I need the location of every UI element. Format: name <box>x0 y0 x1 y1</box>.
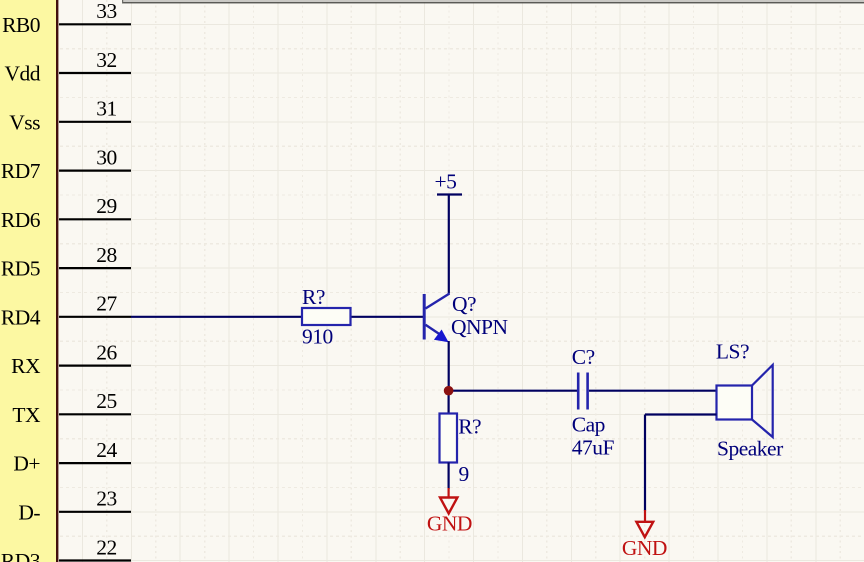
wire junction to C1 <box>449 390 577 392</box>
pin 32 Vdd <box>4 48 131 86</box>
svg-text:22: 22 <box>96 535 117 559</box>
pin 31 Vss <box>9 97 131 135</box>
svg-text:QNPN: QNPN <box>451 315 509 339</box>
svg-text:RD7: RD7 <box>1 159 41 183</box>
pin 22 RD3 <box>1 535 131 562</box>
svg-text:25: 25 <box>96 389 117 413</box>
wire junction to R2 <box>448 391 450 414</box>
label LS? (speaker designator) <box>716 340 749 364</box>
transistor Q? QNPN <box>424 294 449 343</box>
svg-text:Speaker: Speaker <box>717 437 783 461</box>
pin 24 D+ <box>13 438 131 476</box>
svg-text:910: 910 <box>302 325 333 349</box>
svg-text:RB0: RB0 <box>2 13 40 37</box>
ground GND1 <box>427 488 472 535</box>
svg-text:Q?: Q? <box>452 292 476 316</box>
pin 33 RB0 <box>2 0 131 37</box>
pin 29 RD6 <box>1 194 131 232</box>
svg-text:32: 32 <box>96 48 117 72</box>
svg-text:GND: GND <box>622 536 667 560</box>
svg-text:+5: +5 <box>435 170 457 194</box>
label 910 (R1 value) <box>302 325 333 349</box>
pin 27 RD4 <box>1 292 131 330</box>
svg-text:RX: RX <box>11 354 41 378</box>
toolbar bottom edge strip <box>122 0 864 3</box>
resistor R? 910 (horizontal) <box>302 308 351 325</box>
label Cap (C1 type) <box>572 412 605 436</box>
label R? (R1 designator) <box>302 285 325 309</box>
wire +5 to collector <box>448 195 450 294</box>
pin 30 RD7 <box>1 145 131 183</box>
svg-text:RD6: RD6 <box>1 208 41 232</box>
svg-text:LS?: LS? <box>716 340 749 364</box>
wire emitter to junction <box>448 341 450 391</box>
IC body U? (left, partial) <box>0 0 58 562</box>
svg-text:TX: TX <box>12 403 41 427</box>
wire R1 to Q1 base <box>350 316 423 318</box>
label Q? (Q1 designator) <box>452 292 476 316</box>
label R? (R2 designator) <box>458 415 481 439</box>
svg-text:Vdd: Vdd <box>4 62 40 86</box>
resistor R? 9 (vertical) <box>440 414 458 463</box>
svg-text:29: 29 <box>96 194 117 218</box>
pin 23 D- <box>18 487 131 525</box>
wire R2 to GND1 <box>448 463 450 490</box>
wire speaker pin2 down to GND2 <box>645 415 717 512</box>
svg-text:33: 33 <box>96 0 117 23</box>
capacitor C? 47uF <box>578 373 587 410</box>
svg-text:RD3: RD3 <box>1 549 40 562</box>
svg-text:RD4: RD4 <box>1 305 41 329</box>
svg-text:23: 23 <box>96 487 117 511</box>
label C? (C1 designator) <box>572 345 595 369</box>
svg-text:RD5: RD5 <box>1 257 40 281</box>
ground GND2 <box>622 510 667 560</box>
junction node <box>444 386 454 396</box>
svg-text:47uF: 47uF <box>572 435 615 459</box>
speaker LS? <box>717 365 773 437</box>
svg-text:GND: GND <box>427 511 472 535</box>
label 47uF (C1 value) <box>572 435 615 459</box>
svg-text:C?: C? <box>572 345 595 369</box>
svg-text:9: 9 <box>459 462 469 486</box>
pin 28 RD5 <box>1 243 131 281</box>
svg-text:28: 28 <box>96 243 117 267</box>
pin 25 TX <box>12 389 131 427</box>
power +5 <box>435 170 463 195</box>
svg-text:27: 27 <box>96 292 117 316</box>
svg-text:R?: R? <box>302 285 325 309</box>
svg-text:30: 30 <box>96 145 117 169</box>
svg-text:R?: R? <box>458 415 481 439</box>
label QNPN (Q1 value) <box>451 315 509 339</box>
svg-text:Vss: Vss <box>9 110 40 134</box>
wire C1 to speaker <box>589 390 717 392</box>
svg-text:Cap: Cap <box>572 412 605 436</box>
label Speaker (value) <box>717 437 783 461</box>
wire pin27 to R1 <box>131 316 303 318</box>
svg-text:24: 24 <box>96 438 117 462</box>
svg-text:26: 26 <box>96 340 117 364</box>
label 9 (R2 pin number) <box>459 462 469 486</box>
svg-text:D+: D+ <box>13 452 40 476</box>
svg-text:D-: D- <box>18 500 40 524</box>
pin 26 RX <box>11 340 131 378</box>
svg-text:31: 31 <box>96 97 117 121</box>
